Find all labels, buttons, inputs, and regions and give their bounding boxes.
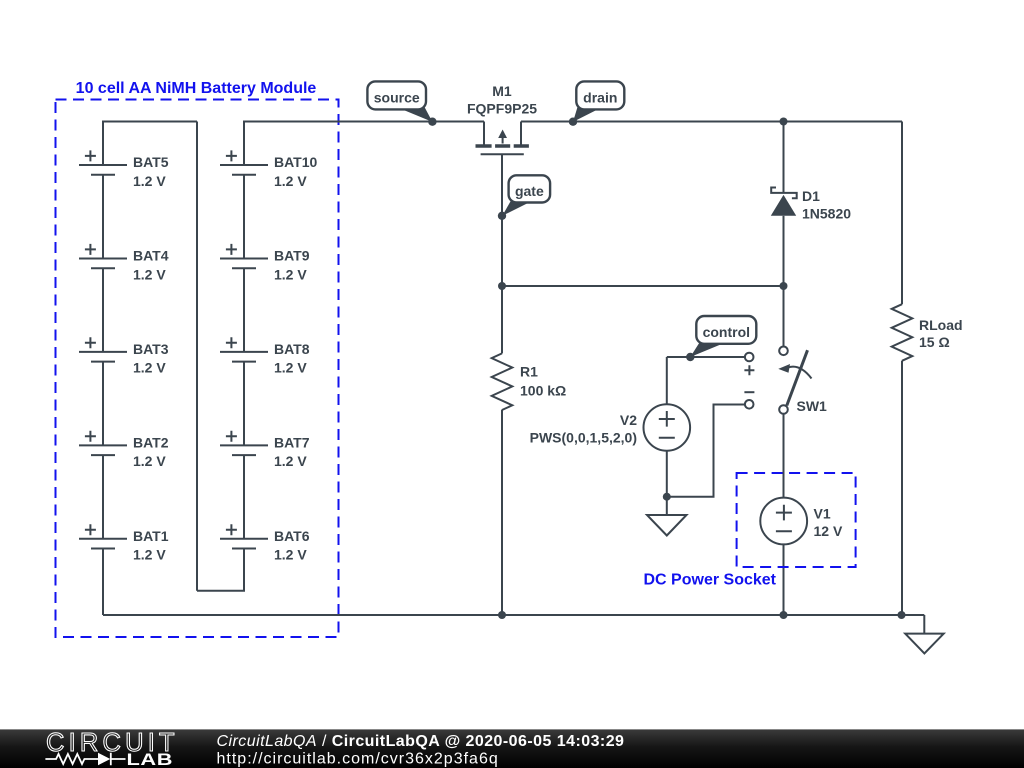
battery BAT3 (1.2 V cell) xyxy=(79,324,169,420)
wire R1 bottom lead xyxy=(501,410,503,615)
ground (V2 return) xyxy=(647,515,687,536)
CircuitLab logo resistor-diode glyph xyxy=(45,754,98,764)
wire D1 branch from top rail xyxy=(783,122,785,194)
node label "drain" callout xyxy=(569,81,625,126)
control + terminal xyxy=(744,353,754,376)
wire bottom rail xyxy=(103,614,924,616)
node label "gate" callout xyxy=(498,175,550,220)
wire R1 top lead xyxy=(501,286,503,353)
battery module enclosure (dashed box) xyxy=(56,100,339,638)
svg-text:1N5820: 1N5820 xyxy=(802,206,851,222)
svg-text:PWS(0,0,1,5,2,0): PWS(0,0,1,5,2,0) xyxy=(530,430,637,446)
svg-text:15 Ω: 15 Ω xyxy=(919,334,950,350)
switch SW1 xyxy=(778,347,827,415)
node label "source" callout xyxy=(367,81,436,126)
svg-text:1.2 V: 1.2 V xyxy=(133,266,166,282)
svg-text:RLoad: RLoad xyxy=(919,317,963,333)
wire V1 bottom lead xyxy=(783,544,785,615)
battery BAT7 (1.2 V cell) xyxy=(220,417,310,513)
svg-text:12 V: 12 V xyxy=(814,523,843,539)
svg-text:BAT8: BAT8 xyxy=(274,341,310,357)
CircuitLab logo text LAB xyxy=(126,751,173,768)
control - terminal xyxy=(744,392,754,408)
wire SW1 to V1 xyxy=(783,414,785,498)
transistor M1 FQPF9P25 (P-channel MOSFET) xyxy=(467,83,537,154)
svg-text:V1: V1 xyxy=(814,506,831,522)
battery BAT1 (1.2 V cell) xyxy=(79,511,169,575)
svg-text:DC Power Socket: DC Power Socket xyxy=(644,572,777,589)
wire gate lead down xyxy=(501,154,503,286)
svg-text:R1: R1 xyxy=(520,364,538,380)
wire col1 bottom lead xyxy=(102,549,104,616)
svg-text:BAT1: BAT1 xyxy=(133,528,169,544)
svg-text:1.2 V: 1.2 V xyxy=(274,547,307,563)
junction D1 / SW1 node xyxy=(780,282,788,290)
svg-text:1.2 V: 1.2 V xyxy=(274,266,307,282)
ground (main, bottom right) xyxy=(905,634,944,654)
battery BAT2 (1.2 V cell) xyxy=(79,417,169,513)
svg-text:100 kΩ: 100 kΩ xyxy=(520,383,566,399)
svg-text:1.2 V: 1.2 V xyxy=(274,173,307,189)
svg-text:BAT9: BAT9 xyxy=(274,248,310,264)
junction RLoad / bottom rail xyxy=(898,611,906,619)
wire gate node to D1 node xyxy=(502,285,784,287)
battery BAT5 (1.2 V cell) xyxy=(79,137,169,233)
wire M1 source lead xyxy=(483,122,485,146)
wire V2 bottom lead xyxy=(666,450,668,497)
battery BAT4 (1.2 V cell) xyxy=(79,231,169,327)
battery BAT6 (1.2 V cell) xyxy=(220,511,310,575)
svg-text:1.2 V: 1.2 V xyxy=(133,360,166,376)
svg-text:drain: drain xyxy=(583,90,617,106)
svg-text:BAT3: BAT3 xyxy=(133,341,169,357)
battery BAT10 (1.2 V cell) xyxy=(220,137,318,233)
voltage source V1 12 V xyxy=(760,498,843,545)
wire col2 top to MOSFET source xyxy=(244,122,484,166)
wire V2 ground stub xyxy=(666,497,668,515)
junction gate / R1 node xyxy=(498,282,506,290)
wire RLoad top lead xyxy=(901,122,903,305)
svg-text:BAT6: BAT6 xyxy=(274,528,310,544)
wire col1 top to rail xyxy=(103,122,197,166)
svg-text:BAT2: BAT2 xyxy=(133,434,169,450)
wire series link bottom xyxy=(197,549,244,591)
wire series link vertical xyxy=(196,122,198,591)
junction V2 minus node xyxy=(663,493,671,501)
svg-text:http://circuitlab.com/cvr36x2p: http://circuitlab.com/cvr36x2p3fa6q xyxy=(217,751,499,768)
wire RLoad bottom lead xyxy=(901,361,903,615)
battery BAT9 (1.2 V cell) xyxy=(220,231,310,327)
svg-text:1.2 V: 1.2 V xyxy=(133,173,166,189)
svg-text:BAT4: BAT4 xyxy=(133,248,169,264)
diode D1 1N5820 (Schottky) xyxy=(771,188,851,222)
wire V2 minus link xyxy=(667,405,745,497)
resistor R1 100 k&#937; xyxy=(492,353,567,410)
svg-text:CircuitLabQA / CircuitLabQA @: CircuitLabQA / CircuitLabQA @ 2020-06-05… xyxy=(217,733,625,750)
svg-text:1.2 V: 1.2 V xyxy=(274,360,307,376)
wire ground stub right xyxy=(923,615,925,634)
svg-text:FQPF9P25: FQPF9P25 xyxy=(467,101,537,117)
wire control horizontal xyxy=(667,356,745,358)
svg-text:source: source xyxy=(374,90,420,106)
svg-text:1.2 V: 1.2 V xyxy=(133,453,166,469)
wire V2 top lead xyxy=(666,357,668,405)
svg-text:V2: V2 xyxy=(620,412,637,428)
junction top rail / D1 xyxy=(780,118,788,126)
svg-text:LAB: LAB xyxy=(126,751,173,768)
svg-text:BAT10: BAT10 xyxy=(274,154,318,170)
DC power socket enclosure (dashed box) xyxy=(737,473,856,567)
node label "control" callout xyxy=(686,316,756,361)
svg-text:control: control xyxy=(703,324,750,340)
svg-text:M1: M1 xyxy=(492,83,512,99)
svg-text:gate: gate xyxy=(515,183,544,199)
svg-text:10 cell AA NiMH Battery Module: 10 cell AA NiMH Battery Module xyxy=(76,80,317,97)
voltage source V2 PWS(0,0,1,5,2,0) xyxy=(530,404,690,451)
wire SW1 top lead xyxy=(783,286,785,346)
junction R1 / bottom rail xyxy=(498,611,506,619)
svg-text:SW1: SW1 xyxy=(797,398,828,414)
wire D1 cathode to node xyxy=(783,216,785,286)
wire M1 drain lead xyxy=(520,122,522,146)
svg-text:BAT5: BAT5 xyxy=(133,154,169,170)
battery BAT8 (1.2 V cell) xyxy=(220,324,310,420)
wire top rail drain to RLoad xyxy=(521,121,902,123)
footer bar xyxy=(0,729,1024,768)
svg-text:1.2 V: 1.2 V xyxy=(133,547,166,563)
junction V1 / bottom rail xyxy=(780,611,788,619)
svg-text:D1: D1 xyxy=(802,188,820,204)
resistor RLoad 15 &#937; xyxy=(892,304,963,361)
svg-text:1.2 V: 1.2 V xyxy=(274,453,307,469)
svg-text:BAT7: BAT7 xyxy=(274,434,310,450)
